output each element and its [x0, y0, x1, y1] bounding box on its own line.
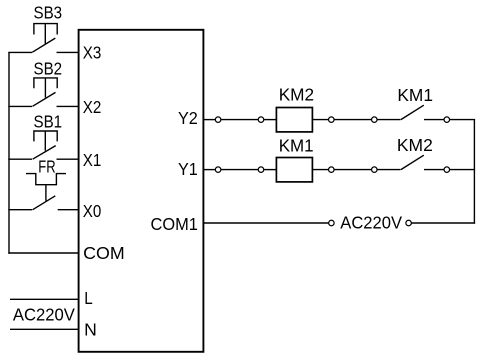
svg-text:COM1: COM1	[151, 214, 198, 234]
svg-text:Y1: Y1	[178, 159, 198, 179]
svg-text:X2: X2	[83, 97, 102, 117]
terminal circle Y1-c	[329, 167, 335, 173]
svg-text:SB3: SB3	[34, 2, 63, 22]
wire AC220V to right rail	[412, 222, 476, 224]
wire Y1 to terminal	[203, 169, 215, 171]
svg-text:X1: X1	[83, 150, 102, 170]
wire SB1 to X1	[57, 158, 79, 160]
svg-text:AC220V: AC220V	[340, 212, 402, 232]
wire terminal to terminal Y2	[334, 119, 371, 121]
wire KM2 contact to terminal	[424, 169, 444, 171]
svg-text:L: L	[84, 288, 93, 308]
wire KM1 coil to terminal	[312, 169, 328, 171]
wire Y2 to right rail	[450, 119, 475, 121]
svg-text:FR: FR	[38, 157, 55, 177]
wire Y1 terminal to terminal	[221, 169, 258, 171]
wire FR to X0	[58, 209, 79, 211]
pushbutton SB2	[33, 78, 58, 106]
wire left rail	[8, 52, 10, 253]
terminal circle COM1-b	[406, 220, 412, 226]
wire rail to FR	[8, 209, 32, 211]
svg-text:KM1: KM1	[279, 135, 314, 155]
terminal circle Y2-a	[215, 117, 221, 123]
svg-text:N: N	[84, 320, 97, 340]
wire terminal to KM2 contact	[377, 169, 400, 171]
svg-text:KM2: KM2	[397, 135, 433, 155]
coil KM2	[276, 108, 312, 132]
terminal circle Y1-a	[215, 167, 221, 173]
wire SB2 to X2	[57, 105, 79, 107]
terminal circle Y2-c	[329, 117, 335, 123]
thermal relay contact FR	[26, 174, 66, 210]
pushbutton SB3	[32, 24, 57, 53]
terminal circle Y1-d	[372, 167, 378, 173]
wire N supply	[10, 328, 79, 330]
wire rail to COM	[8, 252, 78, 254]
wire Y1 to right rail	[450, 169, 475, 171]
wire Y2 to terminal	[203, 119, 215, 121]
svg-text:X0: X0	[83, 201, 102, 221]
svg-text:KM1: KM1	[397, 85, 433, 105]
svg-text:X3: X3	[83, 43, 102, 63]
contact KM1 blade	[401, 105, 424, 119]
svg-text:AC220V: AC220V	[13, 304, 75, 324]
wire rail to SB3	[8, 51, 32, 53]
wire right rail	[473, 120, 475, 224]
svg-text:COM: COM	[83, 243, 125, 263]
terminal circle Y2-b	[258, 117, 264, 123]
wire COM1 to terminal	[203, 222, 328, 224]
PLC controller box U1	[79, 30, 204, 352]
svg-text:KM2: KM2	[279, 84, 314, 104]
contact KM2 blade	[401, 155, 424, 169]
terminal circle COM1-a	[329, 220, 335, 226]
terminal circle Y1-b	[258, 167, 264, 173]
coil KM1	[276, 158, 312, 182]
wire rail to SB2	[8, 105, 32, 107]
wire rail to SB1	[8, 158, 32, 160]
terminal circle Y2-d	[372, 117, 378, 123]
wire terminal to terminal Y1	[334, 169, 371, 171]
wire KM1 contact to terminal	[424, 119, 444, 121]
wire SB3 to X3	[57, 51, 79, 53]
wire to KM1 coil	[264, 169, 277, 171]
svg-text:SB2: SB2	[34, 59, 63, 79]
pushbutton SB1	[33, 131, 58, 159]
svg-text:SB1: SB1	[34, 112, 63, 132]
wire terminal to KM1 contact	[377, 119, 400, 121]
wire Y2 terminal to terminal	[221, 119, 258, 121]
wire KM2 coil to terminal	[312, 119, 328, 121]
terminal circle Y2-e	[444, 117, 450, 123]
wire L supply	[10, 298, 79, 300]
svg-text:Y2: Y2	[178, 108, 198, 128]
wire to KM2 coil	[264, 119, 277, 121]
terminal circle Y1-e	[444, 167, 450, 173]
